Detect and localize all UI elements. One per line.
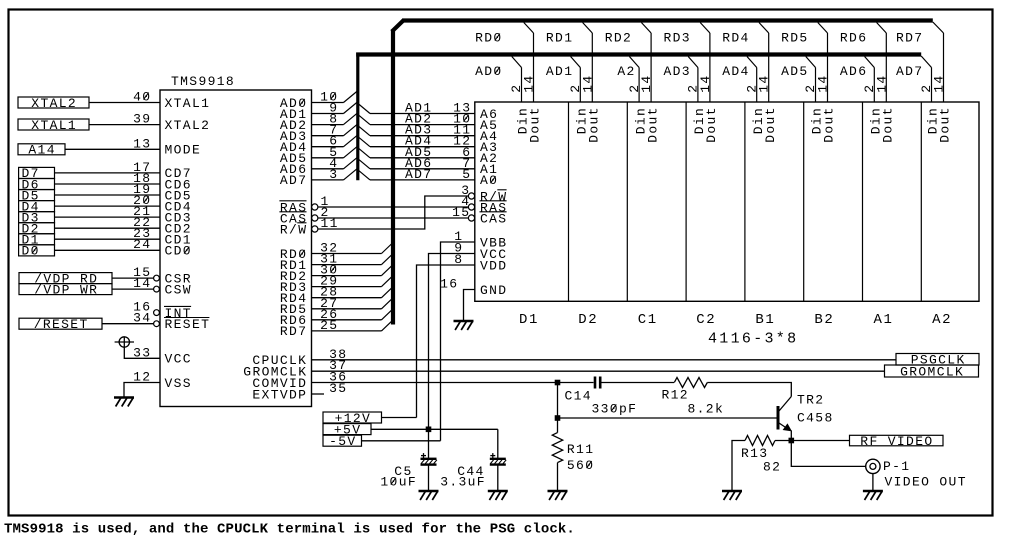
AD bus thick horizontal <box>356 52 921 56</box>
label 8.2k <box>688 401 725 416</box>
label R12 <box>662 387 689 402</box>
label 330pF <box>592 401 638 416</box>
label chip A1 <box>874 312 894 328</box>
label RD6 <box>840 31 867 46</box>
pin 14 label col 3 <box>639 74 654 92</box>
svg-text:14: 14 <box>816 74 831 92</box>
wire AD bus tap to Din pin 2 col 6 <box>806 57 816 103</box>
svg-text:CD0: CD0 <box>165 244 192 259</box>
svg-text:TMS9918 is used, and the CPUCL: TMS9918 is used, and the CPUCLK terminal… <box>4 522 575 538</box>
label chip D1 <box>519 312 539 328</box>
ground at C44 <box>488 491 508 500</box>
wire AD1 bundle to DRAM A6 with label <box>357 101 475 116</box>
wire base node to C14 <box>558 382 594 384</box>
label chip C2 <box>696 312 716 328</box>
wire A14 to pin <box>65 148 160 150</box>
wire AD bus tap to Din pin 2 col 3 <box>629 57 639 103</box>
svg-text:14: 14 <box>639 74 654 92</box>
label A2 tap <box>617 64 635 79</box>
wire VCC pin to power symbol <box>124 347 160 358</box>
label AD7 tap <box>896 64 923 79</box>
wire C14 to R12 <box>602 382 675 384</box>
label RD5 <box>781 31 808 46</box>
wire D1 to CD1 <box>55 238 161 240</box>
DRAM chip divider 1 <box>568 102 570 301</box>
node box D2 <box>19 222 55 237</box>
svg-text:C1: C1 <box>638 312 658 328</box>
wire CPUCLK to PSGCLK box <box>312 359 897 361</box>
label C458 <box>797 411 834 426</box>
ground at R11 <box>548 491 568 500</box>
wire D7 to CD7 <box>55 172 161 174</box>
pin 39 (XTAL2) of U1 <box>133 112 210 133</box>
label chip C1 <box>638 312 658 328</box>
pin 14 label col 4 <box>698 74 713 92</box>
pin 34 (RESET) of U1 <box>133 311 210 332</box>
IC array 4116 DRAM block body <box>475 102 979 301</box>
svg-text:5: 5 <box>462 167 471 182</box>
DRAM pin 9 (VCC) <box>454 241 507 262</box>
svg-text:RESET: RESET <box>165 317 211 332</box>
capacitor C5 <box>421 453 437 465</box>
wire RAS U1 to DRAM <box>317 206 469 208</box>
svg-text:-5V: -5V <box>329 434 356 449</box>
svg-text:D2: D2 <box>578 312 598 328</box>
svg-text:XTAL1: XTAL1 <box>31 118 77 133</box>
wire D0 to CD0 <box>55 249 161 251</box>
label RD4 <box>722 31 749 46</box>
svg-text:VCC: VCC <box>165 352 192 367</box>
label C44 <box>457 464 484 479</box>
pin 14 label col 1 <box>522 74 537 92</box>
label C5 <box>394 464 412 479</box>
ground at DRAM GND <box>454 321 474 330</box>
svg-text:TR2: TR2 <box>797 393 824 408</box>
pin 19 (CD5) of U1 <box>133 182 192 203</box>
ground at P-1 <box>863 491 883 500</box>
wire VBB to -5V rail <box>441 242 475 441</box>
svg-text:14: 14 <box>757 74 772 92</box>
svg-text:15: 15 <box>452 205 470 220</box>
svg-text:RD5: RD5 <box>781 31 808 46</box>
pin 31 (RD1) of U1 with stub and bus slash <box>280 252 393 273</box>
label chip B1 <box>755 312 775 328</box>
svg-text:AD4: AD4 <box>722 64 749 79</box>
wire AD bus tap to Din pin 2 col 4 <box>688 57 698 103</box>
Din label col 3 <box>633 107 648 134</box>
svg-text:/RESET: /RESET <box>34 317 89 332</box>
wire GND pin down <box>464 290 475 321</box>
wire VSS pin to ground <box>124 383 160 397</box>
pin 36 (COMVID) of U1 <box>252 370 347 391</box>
wire +5V rail <box>371 428 498 430</box>
pin 32 (RD0) of U1 with stub and bus slash <box>280 241 393 262</box>
label AD4 tap <box>722 64 749 79</box>
svg-text:RD2: RD2 <box>605 31 632 46</box>
DRAM pin 15 (CAS) bubble <box>452 205 507 226</box>
Dout label col 7 <box>881 106 896 143</box>
junction emitter node <box>789 438 795 444</box>
svg-text:Dout: Dout <box>822 106 837 143</box>
svg-text:RD4: RD4 <box>722 31 749 46</box>
pin 15 (CSR) of U1 <box>133 265 192 286</box>
transistor TR2 emitter with arrow <box>779 423 792 431</box>
Dout label col 5 <box>763 106 778 143</box>
wire D3 to CD3 <box>55 216 161 218</box>
wire AD bus tap to Din pin 2 col 5 <box>747 57 757 103</box>
node box /VDP WR <box>19 282 112 297</box>
capacitor C14 <box>595 377 600 389</box>
wire R12 to collector <box>707 383 791 397</box>
label RD2 <box>605 31 632 46</box>
wire R11 top <box>557 418 559 433</box>
wire /VDP WR to CSW <box>112 288 155 290</box>
label TR2 <box>797 393 824 408</box>
svg-text:RD7: RD7 <box>896 31 923 46</box>
svg-text:VSS: VSS <box>165 376 192 391</box>
pin 28 (RD4) of U1 with stub and bus slash <box>280 285 393 306</box>
wire AD6 bundle to DRAM A1 with label <box>357 156 475 171</box>
wire RD bus tap to Dout pin 14 col 7 <box>877 23 887 103</box>
node box D3 <box>19 210 55 225</box>
svg-text:GND: GND <box>480 283 507 298</box>
DRAM pin A4 label <box>480 129 498 144</box>
node box D5 <box>19 188 55 203</box>
pin 21 (CD3) of U1 <box>133 204 192 225</box>
Din label col 2 <box>575 107 590 134</box>
svg-text:R12: R12 <box>662 387 689 402</box>
wire RD bus tap to Dout pin 14 col 6 <box>818 23 828 103</box>
label TMS9918 <box>171 74 235 89</box>
DRAM chip divider 5 <box>803 102 805 301</box>
node box RF VIDEO <box>850 434 944 449</box>
svg-text:Dout: Dout <box>528 106 543 143</box>
pin 20 (CD4) of U1 <box>133 193 192 214</box>
svg-text:EXTVDP: EXTVDP <box>252 387 307 402</box>
node box PSGCLK <box>896 353 979 368</box>
svg-text:RF VIDEO: RF VIDEO <box>860 434 933 449</box>
wire AD2 bundle to DRAM A5 with label <box>357 112 475 127</box>
pin 25 (RD7) of U1 with stub and bus slash <box>280 318 393 339</box>
wire XTAL1 to pin <box>89 124 160 126</box>
pin 2 label col 5 <box>744 84 759 93</box>
pin 9 (AD1) of U1 with stub and bus slash <box>280 101 357 122</box>
Dout label col 4 <box>704 106 719 143</box>
svg-text:P-1: P-1 <box>883 459 910 474</box>
pin 14 (CSW) of U1 <box>133 276 192 297</box>
svg-text:R11: R11 <box>567 442 594 457</box>
pin 23 (CD1) of U1 <box>133 226 192 247</box>
wire RD bus tap to Dout pin 14 col 5 <box>759 23 769 103</box>
Din label col 6 <box>810 107 825 134</box>
pin 12 (VSS) of U1 <box>133 370 192 391</box>
pin 11 (R/W) of U1 <box>280 216 339 237</box>
pin 38 (CPUCLK) of U1 <box>252 347 347 368</box>
node box +12V <box>323 411 382 426</box>
label chip A2 <box>932 312 952 328</box>
pin 2 label col 7 <box>862 84 877 93</box>
wire AD bus tap to Din pin 2 col 8 <box>921 56 931 102</box>
svg-text:3.3uF: 3.3uF <box>440 475 486 490</box>
pin 14 label col 7 <box>874 74 889 92</box>
svg-text:CSW: CSW <box>165 282 192 297</box>
svg-text:AD6: AD6 <box>840 64 867 79</box>
pin 14 label col 6 <box>816 74 831 92</box>
wire base <box>558 417 777 419</box>
svg-text:C14: C14 <box>565 388 592 403</box>
wire RD bus tap to Dout pin 14 col 4 <box>700 23 710 103</box>
DRAM pin A1 label <box>480 162 498 177</box>
svg-text:Dout: Dout <box>938 106 953 143</box>
resistor R11 <box>552 433 562 463</box>
resistor R12 <box>674 378 707 388</box>
resistor R13 <box>745 436 775 446</box>
label chip D2 <box>578 312 598 328</box>
wire RD bus tap to Dout pin 14 col 3 <box>641 23 651 103</box>
wire EXTVDP stub <box>312 393 325 395</box>
node box D7 <box>19 166 55 181</box>
label C14 <box>565 388 592 403</box>
node box XTAL2 <box>18 96 89 111</box>
svg-text:24: 24 <box>133 237 151 252</box>
svg-text:A0: A0 <box>480 173 498 188</box>
Dout label col 3 <box>645 106 660 143</box>
node box A14 <box>18 143 65 158</box>
transistor TR2 collector <box>779 397 791 412</box>
label AD3 tap <box>664 64 691 79</box>
svg-text:8.2k: 8.2k <box>688 401 725 416</box>
svg-text:CAS: CAS <box>480 211 507 226</box>
label 3.3uF <box>440 475 486 490</box>
node box /VDP RD <box>19 271 112 286</box>
label RD3 <box>664 31 691 46</box>
DRAM pin 16 (GND) <box>440 277 507 298</box>
wire D2 to CD2 <box>55 227 161 229</box>
DRAM pin A3 label <box>480 140 498 155</box>
ground at VSS <box>114 398 134 407</box>
svg-text:A2: A2 <box>617 64 635 79</box>
svg-text:VDD: VDD <box>480 258 507 273</box>
svg-text:13: 13 <box>133 136 151 151</box>
wire D6 to CD6 <box>55 183 161 185</box>
pin 30 (RD2) of U1 with stub and bus slash <box>280 263 393 284</box>
svg-text:Dout: Dout <box>763 106 778 143</box>
DRAM pin 1 (VBB) <box>454 229 507 250</box>
wire emitter down <box>790 430 792 440</box>
label VIDEO OUT <box>885 474 967 489</box>
label AD5 tap <box>781 64 808 79</box>
svg-text:330pF: 330pF <box>592 401 638 416</box>
svg-text:RD1: RD1 <box>546 31 573 46</box>
wire AD7 bundle to DRAM A0 with label <box>357 167 475 182</box>
Dout label col 8 <box>938 106 953 143</box>
wire AD bus tap to Din pin 2 col 7 <box>865 57 875 103</box>
pin 4 (AD6) of U1 with stub and bus slash <box>280 156 357 177</box>
Din label col 5 <box>751 107 766 134</box>
DRAM chip divider 3 <box>685 102 687 301</box>
Dout label col 2 <box>587 106 602 143</box>
pin 29 (RD3) of U1 with stub and bus slash <box>280 274 393 295</box>
DRAM pin 4 (RAS) bubble <box>461 194 507 215</box>
svg-text:XTAL2: XTAL2 <box>165 118 211 133</box>
node box D4 <box>19 199 55 214</box>
wire R13 left to ground <box>732 441 745 491</box>
svg-text:D0: D0 <box>22 244 40 259</box>
svg-text:Dout: Dout <box>587 106 602 143</box>
svg-text:A14: A14 <box>28 143 55 158</box>
label 560 <box>567 458 594 473</box>
wire emitter node to RF VIDEO <box>791 440 849 442</box>
label RD7 <box>896 31 923 46</box>
DRAM pin A0 label <box>480 173 498 188</box>
wire AD bus tap to Din pin 2 col 2 <box>571 57 581 103</box>
DRAM pin A2 label <box>480 151 498 166</box>
pin 2 label col 3 <box>627 84 642 93</box>
svg-text:14: 14 <box>522 74 537 92</box>
pin 8 (AD2) of U1 with stub and bus slash <box>280 112 357 133</box>
svg-text:RD3: RD3 <box>664 31 691 46</box>
wire AD4 bundle to DRAM A3 with label <box>357 134 475 149</box>
RD bus corner <box>392 20 404 32</box>
label 10uF <box>380 475 417 490</box>
svg-text:XTAL1: XTAL1 <box>165 96 211 111</box>
wire +5V to C44 <box>497 429 499 458</box>
wire RD bus tap to Dout pin 14 col 8 <box>933 22 944 102</box>
svg-text:35: 35 <box>329 381 347 396</box>
svg-text:VIDEO OUT: VIDEO OUT <box>885 474 967 489</box>
label R13 <box>741 446 768 461</box>
svg-text:A1: A1 <box>874 312 894 328</box>
wire AD bus tap to Din pin 2 col 1 <box>512 57 522 103</box>
wire RD bus tap to Dout pin 14 col 2 <box>583 23 593 103</box>
svg-text:Dout: Dout <box>645 106 660 143</box>
wire R13 right <box>775 440 791 442</box>
node box +5V <box>323 422 371 437</box>
svg-text:AD7: AD7 <box>405 167 432 182</box>
wire C5 to ground <box>428 465 430 490</box>
label AD1 tap <box>546 64 573 79</box>
DRAM pin 3 (R/W) bubble <box>461 183 507 204</box>
wire VCC to +5V rail <box>429 254 475 430</box>
wire node down to base node <box>557 383 559 419</box>
svg-text:14: 14 <box>932 74 947 92</box>
svg-text:B2: B2 <box>814 312 834 328</box>
svg-text:Dout: Dout <box>704 106 719 143</box>
pin 10 (AD0) of U1 with stub and bus slash <box>280 90 357 111</box>
wire GROMCLK to GROMCLK box <box>312 370 885 372</box>
wire C44 to ground <box>497 465 499 490</box>
svg-text:C2: C2 <box>696 312 716 328</box>
label 4116-3*8 <box>708 331 798 348</box>
transistor TR2 base bar <box>777 406 780 430</box>
DRAM chip divider 2 <box>626 102 628 301</box>
wire +5V to C5 <box>428 429 430 458</box>
svg-text:RD0: RD0 <box>475 31 502 46</box>
pin 3 (AD7) of U1 with stub and bus slash <box>280 167 357 188</box>
pin 22 (CD2) of U1 <box>133 215 192 236</box>
pin 6 (AD4) of U1 with stub and bus slash <box>280 134 357 155</box>
junction base node <box>555 415 561 421</box>
svg-text:39: 39 <box>133 112 151 127</box>
label chip B2 <box>814 312 834 328</box>
connector P-1 <box>866 459 880 473</box>
svg-text:40: 40 <box>133 90 151 105</box>
RD bus thick vertical <box>391 30 395 325</box>
node box D1 <box>19 233 55 248</box>
pin 35 (EXTVDP) of U1 <box>252 381 347 402</box>
svg-text:TMS9918: TMS9918 <box>171 74 235 89</box>
svg-text:AD3: AD3 <box>664 64 691 79</box>
svg-text:R/W: R/W <box>280 222 307 237</box>
wire P-1 to ground <box>872 474 874 490</box>
caption text <box>4 522 575 538</box>
svg-text:AD5: AD5 <box>781 64 808 79</box>
svg-text:10uF: 10uF <box>380 475 417 490</box>
pin 2 label col 1 <box>509 84 524 93</box>
label RD0 <box>475 31 502 46</box>
wire CAS U1 to DRAM <box>317 217 469 219</box>
svg-text:AD1: AD1 <box>546 64 573 79</box>
svg-text:14: 14 <box>874 74 889 92</box>
pin 5 (AD5) of U1 with stub and bus slash <box>280 145 357 166</box>
label AD0 tap <box>475 64 502 79</box>
wire D4 to CD4 <box>55 205 161 207</box>
svg-text:AD7: AD7 <box>280 173 307 188</box>
DRAM chip divider 4 <box>744 102 746 301</box>
wire +12V rail <box>382 417 417 419</box>
wire D5 to CD5 <box>55 194 161 196</box>
svg-text:MODE: MODE <box>165 143 202 158</box>
pin 16 (INT) of U1 <box>133 300 192 321</box>
svg-text:16: 16 <box>440 277 458 292</box>
pin 2 label col 8 <box>919 84 934 93</box>
pin 33 (VCC) of U1 <box>133 345 192 366</box>
svg-text:AD7: AD7 <box>896 64 923 79</box>
wire /VDP RD to CSR <box>112 277 155 279</box>
RD bus thick horizontal <box>403 18 933 22</box>
pin 13 (MODE) of U1 <box>133 136 201 157</box>
wire R11 to ground <box>557 463 559 490</box>
pin 18 (CD6) of U1 <box>133 171 192 192</box>
pin 27 (RD5) of U1 with stub and bus slash <box>280 296 393 317</box>
label RD1 <box>546 31 573 46</box>
svg-text:AD0: AD0 <box>475 64 502 79</box>
wire AD5 bundle to DRAM A2 with label <box>357 145 475 160</box>
junction COMVID node <box>555 380 561 386</box>
IC U1 TMS9918 body <box>160 90 312 407</box>
node box XTAL1 <box>18 118 89 133</box>
wire AD3 bundle to DRAM A4 with label <box>357 123 475 138</box>
pin 2 (CAS) of U1 <box>279 205 329 226</box>
wire XTAL2 to pin <box>89 102 160 104</box>
pin 2 label col 2 <box>568 84 583 93</box>
ground at C5 <box>419 491 439 500</box>
wire R/W U1 to DRAM <box>317 196 469 229</box>
pin 37 (GROMCLK) of U1 <box>243 358 347 379</box>
pin 17 (CD7) of U1 <box>133 160 192 181</box>
pin 40 (XTAL1) of U1 <box>133 90 210 111</box>
svg-text:14: 14 <box>580 74 595 92</box>
svg-text:14: 14 <box>698 74 713 92</box>
DRAM pin 8 (VDD) <box>454 252 507 273</box>
pin 24 (CD0) of U1 <box>133 237 192 258</box>
Dout label col 6 <box>822 106 837 143</box>
node box GROMCLK <box>885 364 979 379</box>
svg-text:4116-3*8: 4116-3*8 <box>708 331 798 348</box>
wire emitter node to P-1 <box>791 441 865 467</box>
svg-text:RD7: RD7 <box>280 324 307 339</box>
label AD6 tap <box>840 64 867 79</box>
